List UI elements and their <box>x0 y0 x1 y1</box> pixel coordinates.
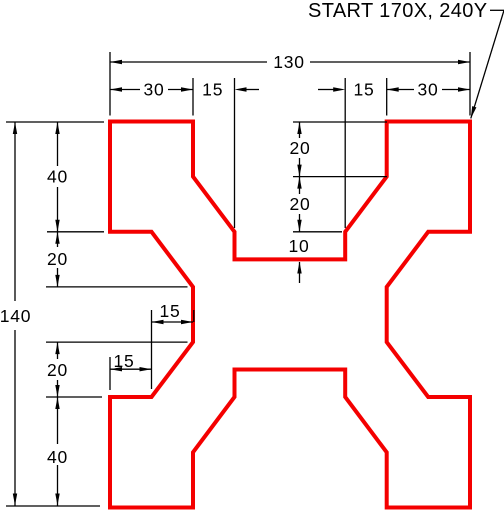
svg-text:15: 15 <box>113 351 134 371</box>
svg-text:20: 20 <box>289 194 310 214</box>
svg-text:30: 30 <box>143 80 164 100</box>
svg-text:40: 40 <box>47 447 68 467</box>
svg-text:10: 10 <box>288 236 309 256</box>
svg-text:30: 30 <box>417 80 438 100</box>
svg-text:40: 40 <box>47 167 68 187</box>
svg-text:15: 15 <box>353 80 374 100</box>
svg-text:20: 20 <box>47 249 68 269</box>
svg-text:15: 15 <box>202 80 223 100</box>
svg-text:15: 15 <box>159 301 180 321</box>
svg-text:20: 20 <box>47 360 68 380</box>
svg-text:20: 20 <box>289 138 310 158</box>
svg-text:130: 130 <box>273 52 305 72</box>
svg-text:140: 140 <box>0 306 31 326</box>
svg-text:START 170X, 240Y: START 170X, 240Y <box>308 0 488 22</box>
